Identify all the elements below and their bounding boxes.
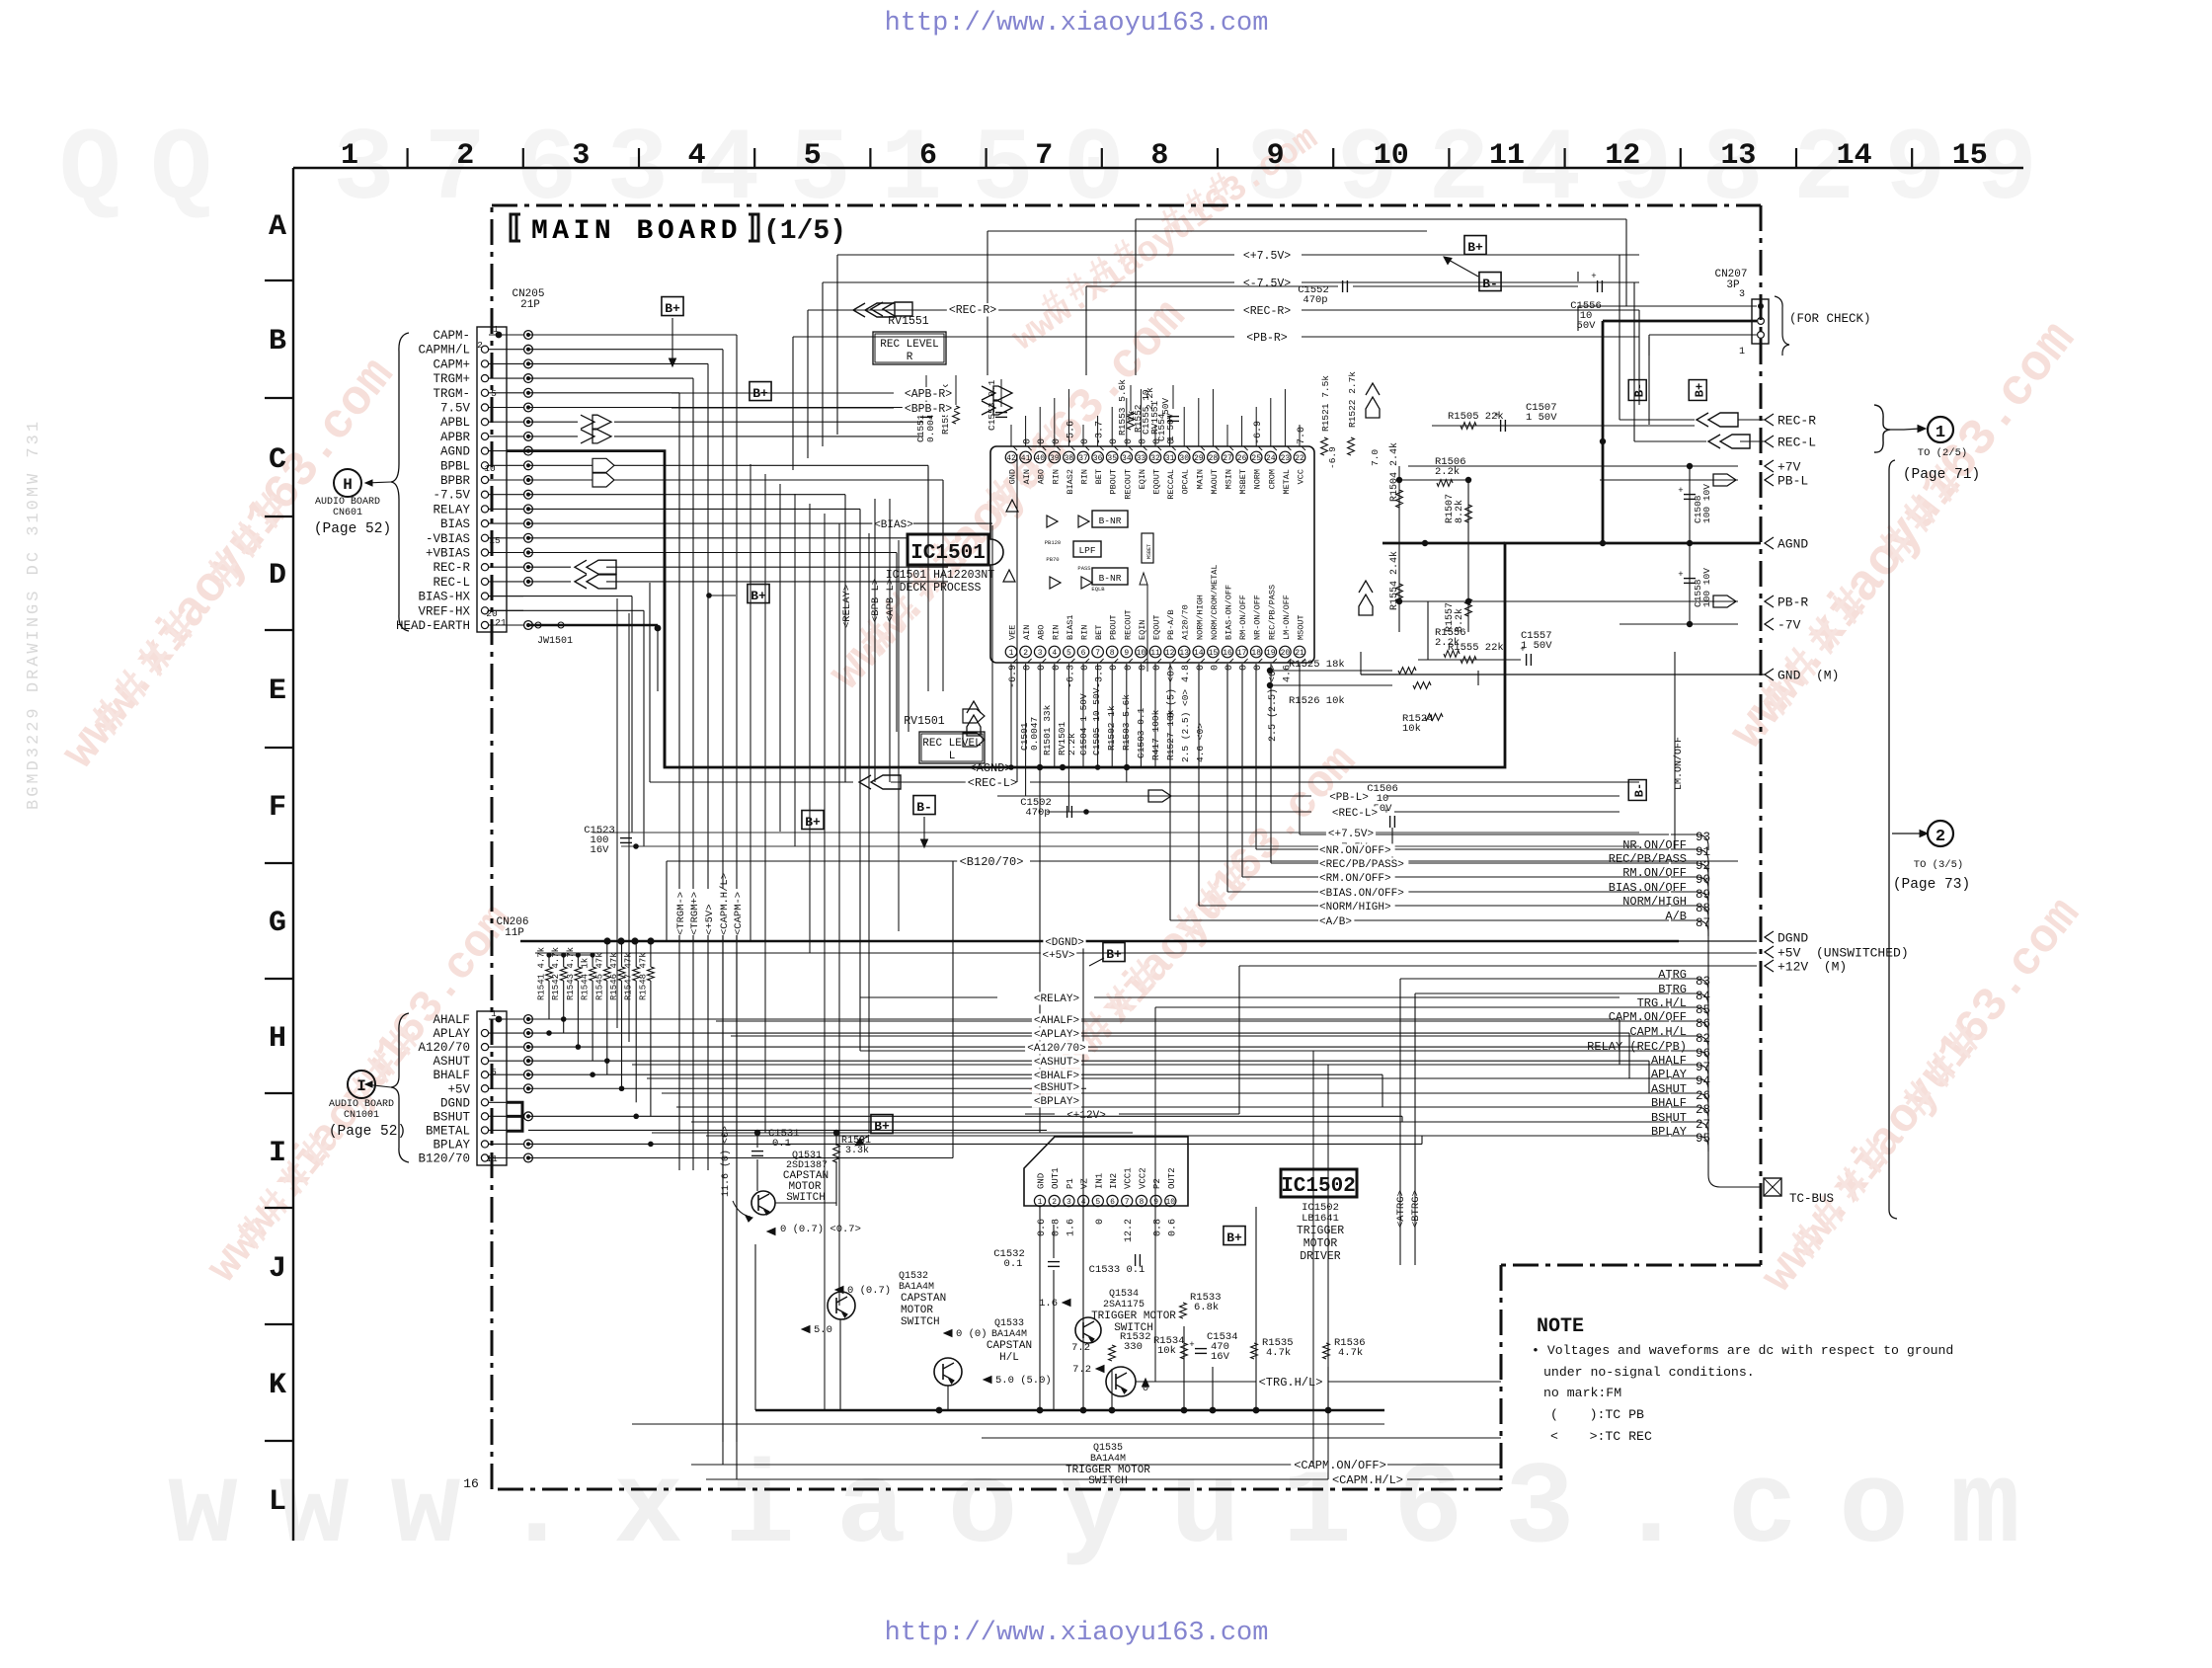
svg-text:16V: 16V xyxy=(1211,1351,1230,1363)
svg-text:AUDIO BOARD: AUDIO BOARD xyxy=(329,1099,394,1110)
svg-text:E: E xyxy=(269,675,286,708)
svg-text:RIN: RIN xyxy=(1080,469,1090,484)
svg-text:1 50V: 1 50V xyxy=(1165,413,1176,441)
svg-text:<BIAS.ON/OFF>: <BIAS.ON/OFF> xyxy=(1319,888,1404,900)
svg-text:PB-R: PB-R xyxy=(1777,596,1808,610)
svg-text:7.5V: 7.5V xyxy=(440,402,471,416)
svg-text:PB70: PB70 xyxy=(1046,556,1059,563)
svg-text:+12V (M): +12V (M) xyxy=(1777,960,1847,975)
svg-text:470p: 470p xyxy=(1025,807,1050,819)
svg-text:+7V: +7V xyxy=(1777,460,1801,475)
svg-text:6: 6 xyxy=(1081,649,1086,658)
svg-text:10: 10 xyxy=(1374,139,1409,173)
svg-text:<BPB-R>: <BPB-R> xyxy=(905,403,952,416)
svg-text:41: 41 xyxy=(1021,454,1031,463)
svg-text:36: 36 xyxy=(1093,454,1103,463)
svg-text:0: 0 xyxy=(1109,438,1120,444)
svg-text:BIAS-ON/OFF: BIAS-ON/OFF xyxy=(1224,585,1234,640)
svg-text:MSOUT: MSOUT xyxy=(1297,614,1306,640)
svg-text:50V: 50V xyxy=(1160,398,1171,415)
svg-text:6: 6 xyxy=(1110,1198,1115,1207)
svg-text:0 (0): 0 (0) xyxy=(956,1328,987,1340)
svg-text:<CAPM.H/L>: <CAPM.H/L> xyxy=(719,873,731,935)
svg-text:H/L: H/L xyxy=(999,1352,1019,1364)
svg-text:16: 16 xyxy=(1223,649,1232,658)
svg-text:12.2: 12.2 xyxy=(1124,1219,1135,1242)
svg-text:CAPSTAN: CAPSTAN xyxy=(901,1293,946,1305)
svg-text:7.0: 7.0 xyxy=(1297,427,1307,444)
svg-text:21P: 21P xyxy=(520,299,540,311)
svg-text:16V: 16V xyxy=(591,844,610,856)
svg-text:10: 10 xyxy=(484,463,496,474)
svg-text:0: 0 xyxy=(1095,1219,1106,1225)
svg-text:BSHUT: BSHUT xyxy=(1651,1111,1687,1125)
svg-text:LPF: LPF xyxy=(1078,545,1095,556)
svg-text:13: 13 xyxy=(1720,139,1756,173)
svg-text:REC-R: REC-R xyxy=(1777,414,1816,429)
svg-text:TRGM-: TRGM- xyxy=(433,387,470,401)
svg-text:DGND: DGND xyxy=(1777,931,1808,946)
svg-text:+: + xyxy=(1678,570,1683,580)
svg-text:GND: GND xyxy=(1037,1173,1047,1189)
svg-text:RELAY: RELAY xyxy=(433,503,470,516)
svg-text:CAPSTAN: CAPSTAN xyxy=(987,1340,1032,1352)
svg-text:VEE: VEE xyxy=(1008,625,1018,640)
svg-text:<REC-R>: <REC-R> xyxy=(949,304,996,317)
svg-text:TRGM+: TRGM+ xyxy=(433,372,470,386)
svg-text:NORM/HIGH: NORM/HIGH xyxy=(1622,895,1687,909)
svg-text:14: 14 xyxy=(1837,139,1872,173)
svg-text:RIN: RIN xyxy=(1080,625,1090,640)
svg-text:BIAS-HX: BIAS-HX xyxy=(418,591,470,604)
svg-text:TRIGGER MOTOR: TRIGGER MOTOR xyxy=(1091,1311,1176,1322)
svg-text:C: C xyxy=(269,443,286,477)
svg-text:0: 0 xyxy=(1037,665,1048,671)
svg-text:+VBIAS: +VBIAS xyxy=(426,547,470,561)
svg-text:B-: B- xyxy=(1633,783,1647,797)
svg-text:+: + xyxy=(1591,272,1596,281)
svg-text:<BIAS>: <BIAS> xyxy=(874,519,913,531)
svg-text:7: 7 xyxy=(1125,1198,1130,1207)
svg-text:0: 0 xyxy=(1124,665,1135,671)
svg-text:GND: GND xyxy=(1008,469,1018,484)
svg-text:40: 40 xyxy=(1035,454,1045,463)
svg-text:21: 21 xyxy=(1295,649,1304,658)
svg-text:<A/B>: <A/B> xyxy=(1319,916,1352,928)
svg-text:0: 0 xyxy=(1023,438,1034,444)
svg-text:9: 9 xyxy=(1153,1198,1158,1207)
svg-text:ASHUT: ASHUT xyxy=(433,1055,470,1069)
svg-text:(FOR CHECK): (FOR CHECK) xyxy=(1789,312,1871,326)
svg-text:24: 24 xyxy=(1266,454,1276,463)
svg-text:BHALF: BHALF xyxy=(1651,1096,1687,1110)
svg-text:42: 42 xyxy=(1006,454,1016,463)
svg-text:11: 11 xyxy=(1150,649,1160,658)
svg-text:<+7.5V>: <+7.5V> xyxy=(1243,250,1291,263)
svg-text:<BSHUT>: <BSHUT> xyxy=(1034,1082,1079,1094)
svg-text:0.8: 0.8 xyxy=(1052,1219,1063,1236)
svg-text:<APLAY>: <APLAY> xyxy=(1034,1029,1079,1041)
svg-text:Q1534: Q1534 xyxy=(1109,1289,1139,1300)
svg-text:21: 21 xyxy=(495,617,507,628)
svg-text:B-: B- xyxy=(1633,383,1647,397)
svg-text:METAL: METAL xyxy=(1282,469,1292,495)
svg-text:DECK PROCESS: DECK PROCESS xyxy=(900,582,982,595)
svg-text:0.0047: 0.0047 xyxy=(1029,717,1040,751)
svg-text:<CAPM.H/L>: <CAPM.H/L> xyxy=(1332,1473,1403,1487)
svg-text:0: 0 xyxy=(1023,665,1034,671)
svg-text:3: 3 xyxy=(572,139,590,173)
svg-text:B+: B+ xyxy=(805,815,821,830)
svg-text:Q1532: Q1532 xyxy=(899,1271,928,1282)
svg-text:IC1502: IC1502 xyxy=(1281,1175,1356,1198)
svg-text:4: 4 xyxy=(688,139,706,173)
svg-text:11P: 11P xyxy=(505,927,524,939)
svg-text:BET: BET xyxy=(1094,469,1104,484)
svg-text:BPBR: BPBR xyxy=(440,474,471,488)
svg-text:LB1641: LB1641 xyxy=(1302,1213,1339,1225)
svg-text:( ):TC PB: ( ):TC PB xyxy=(1550,1407,1644,1422)
svg-text:2.2k: 2.2k xyxy=(1435,466,1460,478)
svg-text:0.6: 0.6 xyxy=(1037,1219,1048,1236)
svg-text:APLAY: APLAY xyxy=(1651,1068,1687,1081)
svg-text:-7V: -7V xyxy=(1777,618,1801,633)
svg-text:31: 31 xyxy=(1165,454,1175,463)
svg-text:no mark:FM: no mark:FM xyxy=(1543,1386,1621,1400)
svg-text:<REC-L>: <REC-L> xyxy=(1332,808,1378,820)
svg-text:B+: B+ xyxy=(1106,947,1122,962)
svg-text:<AHALF>: <AHALF> xyxy=(1034,1015,1079,1027)
svg-text:0: 0 xyxy=(1080,438,1091,444)
svg-text:<APB-R>: <APB-R> xyxy=(905,388,952,401)
svg-text:C1553 0.1: C1553 0.1 xyxy=(987,379,997,431)
svg-text:0 (0.7): 0 (0.7) xyxy=(847,1285,891,1297)
svg-text:AIN: AIN xyxy=(1022,625,1032,640)
svg-text:NORM: NORM xyxy=(1253,469,1263,489)
svg-text:16: 16 xyxy=(463,1476,479,1491)
svg-text:0: 0 xyxy=(1037,438,1048,444)
svg-text:I: I xyxy=(269,1137,286,1170)
svg-text:R1545 47k: R1545 47k xyxy=(594,952,604,1000)
svg-text:38: 38 xyxy=(1065,454,1074,463)
svg-text:BTRG: BTRG xyxy=(1658,983,1687,996)
svg-text:7: 7 xyxy=(1035,139,1053,173)
svg-text:ABO: ABO xyxy=(1037,469,1047,484)
svg-text:1: 1 xyxy=(493,324,499,335)
svg-text:<+5V>: <+5V> xyxy=(704,904,716,935)
svg-text:APLAY: APLAY xyxy=(433,1027,470,1041)
svg-text:11: 11 xyxy=(486,1153,498,1164)
svg-text:7.2: 7.2 xyxy=(1072,1364,1091,1376)
svg-text:<REC-R>: <REC-R> xyxy=(1243,305,1291,318)
svg-text:1.6: 1.6 xyxy=(1039,1298,1058,1310)
svg-text:34: 34 xyxy=(1122,454,1132,463)
svg-text:(Page 71): (Page 71) xyxy=(1903,467,1980,483)
svg-text:D: D xyxy=(269,559,286,593)
svg-text:BPLAY: BPLAY xyxy=(1651,1125,1687,1139)
svg-text:P2: P2 xyxy=(1152,1178,1162,1189)
svg-text:4.6 <0>: 4.6 <0> xyxy=(1195,723,1206,762)
svg-text:TC-BUS: TC-BUS xyxy=(1789,1192,1834,1206)
svg-text:BET: BET xyxy=(1094,625,1104,640)
svg-text:PBOUT: PBOUT xyxy=(1109,469,1119,495)
svg-text:0: 0 xyxy=(1210,665,1221,671)
svg-text:VCC1: VCC1 xyxy=(1124,1167,1134,1189)
svg-text:JW1501: JW1501 xyxy=(537,636,573,647)
svg-text:18: 18 xyxy=(1251,649,1261,658)
svg-text:22: 22 xyxy=(1295,454,1304,463)
svg-text:LM-ON/OFF: LM-ON/OFF xyxy=(1282,595,1292,640)
svg-text:NORM/CROM/METAL: NORM/CROM/METAL xyxy=(1210,564,1220,640)
svg-text:3P: 3P xyxy=(1726,279,1740,291)
svg-text:B-: B- xyxy=(916,800,932,815)
svg-text:7.0: 7.0 xyxy=(1370,449,1381,466)
svg-text:B-NR: B-NR xyxy=(1099,516,1122,526)
svg-text:BIAS1: BIAS1 xyxy=(1066,614,1075,640)
svg-text:28: 28 xyxy=(1209,454,1219,463)
svg-text:6.8k: 6.8k xyxy=(1194,1302,1219,1313)
svg-text:12: 12 xyxy=(1165,649,1175,658)
svg-text:B+: B+ xyxy=(665,301,680,316)
svg-text:15: 15 xyxy=(1952,139,1988,173)
svg-text:OPCAL: OPCAL xyxy=(1181,469,1191,495)
svg-text:I: I xyxy=(356,1077,366,1095)
svg-text:R: R xyxy=(907,352,913,363)
svg-text:-6.3: -6.3 xyxy=(1066,665,1076,688)
svg-text:TO (3/5): TO (3/5) xyxy=(1914,859,1963,871)
svg-text:BHALF: BHALF xyxy=(433,1069,470,1082)
svg-text:BGMD3229 DRAWINGS DC 310MW 731: BGMD3229 DRAWINGS DC 310MW 731 xyxy=(25,419,43,810)
svg-text:R1501 33k: R1501 33k xyxy=(1042,704,1053,755)
svg-text:17: 17 xyxy=(1237,649,1247,658)
svg-text:APBR: APBR xyxy=(440,431,471,444)
svg-text:Q1533: Q1533 xyxy=(994,1318,1024,1329)
svg-text:L: L xyxy=(269,1485,286,1519)
svg-text:MOTOR: MOTOR xyxy=(1303,1237,1338,1250)
svg-text:<TRGM->: <TRGM-> xyxy=(675,892,687,935)
svg-text:+: + xyxy=(1189,1340,1194,1350)
svg-text:TO (2/5): TO (2/5) xyxy=(1918,447,1967,459)
svg-text:330: 330 xyxy=(1124,1341,1143,1353)
svg-text:<ASHUT>: <ASHUT> xyxy=(1034,1057,1079,1069)
svg-text:TRG.H/L: TRG.H/L xyxy=(1637,996,1687,1010)
svg-text:REC-L: REC-L xyxy=(433,576,470,590)
svg-text:CROM: CROM xyxy=(1267,469,1277,489)
svg-text:0.1: 0.1 xyxy=(1004,1258,1023,1270)
svg-text:4.7k: 4.7k xyxy=(1266,1347,1291,1359)
svg-text:PB-A/B: PB-A/B xyxy=(1166,609,1176,640)
svg-text:0: 0 xyxy=(1138,438,1148,444)
svg-text:VCC: VCC xyxy=(1297,469,1306,484)
svg-text:RM-ON/OFF: RM-ON/OFF xyxy=(1238,595,1248,640)
svg-text:R1553 5.6k: R1553 5.6k xyxy=(1117,379,1128,436)
svg-text:11.6 (0) <0>: 11.6 (0) <0> xyxy=(720,1126,732,1197)
svg-text:(1/5): (1/5) xyxy=(763,216,846,247)
svg-text:5: 5 xyxy=(1066,649,1071,658)
svg-text:26: 26 xyxy=(1237,454,1247,463)
svg-text:B-: B- xyxy=(1482,277,1498,291)
svg-text:8: 8 xyxy=(1110,649,1115,658)
svg-text:PBOUT: PBOUT xyxy=(1109,614,1119,640)
svg-text:IC1501: IC1501 xyxy=(910,542,986,565)
svg-text:B+: B+ xyxy=(1467,240,1483,255)
svg-text:REC/PB/PASS: REC/PB/PASS xyxy=(1609,852,1687,866)
svg-text:5: 5 xyxy=(804,139,822,173)
svg-text:2.5 (2.5) <0>: 2.5 (2.5) <0> xyxy=(1180,689,1191,762)
svg-text:R1544 1k: R1544 1k xyxy=(581,958,591,1000)
svg-text:AHALF: AHALF xyxy=(433,1013,470,1027)
svg-text:<RELAY>: <RELAY> xyxy=(841,585,853,628)
svg-text:14: 14 xyxy=(1194,649,1204,658)
svg-text:0 (0.7) <0.7>: 0 (0.7) <0.7> xyxy=(780,1224,861,1235)
svg-text:2: 2 xyxy=(456,139,474,173)
svg-text:CAPMH/L: CAPMH/L xyxy=(418,344,470,357)
svg-text:CAPM.ON/OFF: CAPM.ON/OFF xyxy=(1609,1010,1687,1024)
svg-text:B: B xyxy=(269,325,286,358)
svg-text:2.2k: 2.2k xyxy=(1145,387,1155,410)
svg-text:9: 9 xyxy=(1124,649,1129,658)
svg-text:RECOUT: RECOUT xyxy=(1123,469,1133,500)
svg-text:<BTRG>: <BTRG> xyxy=(1410,1190,1422,1228)
svg-text:23: 23 xyxy=(1281,454,1291,463)
svg-text:<PB-L>: <PB-L> xyxy=(1329,792,1369,804)
svg-text:2.2k: 2.2k xyxy=(1066,733,1077,755)
svg-text:<TRGM+>: <TRGM+> xyxy=(689,892,701,935)
svg-text:R417 100k: R417 100k xyxy=(1150,709,1161,760)
svg-text:<REC/PB/PASS>: <REC/PB/PASS> xyxy=(1319,859,1404,871)
svg-text:-6.9: -6.9 xyxy=(1327,446,1338,469)
svg-text:BSHUT: BSHUT xyxy=(433,1110,470,1124)
svg-text:0: 0 xyxy=(1196,665,1207,671)
svg-text:MOTOR: MOTOR xyxy=(901,1305,933,1316)
svg-text:C1503 0.1: C1503 0.1 xyxy=(1136,707,1146,758)
svg-text:<NORM/HIGH>: <NORM/HIGH> xyxy=(1319,902,1391,913)
svg-text:C1504 1 50V: C1504 1 50V xyxy=(1078,693,1089,755)
svg-text:0.6: 0.6 xyxy=(1167,1219,1178,1236)
svg-text:35: 35 xyxy=(1107,454,1117,463)
svg-text:4.7k: 4.7k xyxy=(1338,1347,1363,1359)
svg-text:A120/70: A120/70 xyxy=(1181,604,1191,640)
svg-text:http://www.xiaoyu163.com: http://www.xiaoyu163.com xyxy=(885,1619,1269,1648)
svg-text:AIN: AIN xyxy=(1022,469,1032,484)
svg-text:REC-R: REC-R xyxy=(433,561,470,575)
svg-text:3: 3 xyxy=(1739,289,1745,300)
svg-text:32: 32 xyxy=(1150,454,1160,463)
svg-text:BIAS.ON/OFF: BIAS.ON/OFF xyxy=(1609,881,1687,895)
svg-text:7.2: 7.2 xyxy=(1071,1342,1090,1354)
svg-text:27: 27 xyxy=(1223,454,1232,463)
svg-text:39: 39 xyxy=(1050,454,1060,463)
svg-text:1: 1 xyxy=(491,1008,497,1019)
svg-text:-6.9: -6.9 xyxy=(1253,421,1264,444)
svg-text:3.3k: 3.3k xyxy=(845,1145,869,1156)
svg-text:2: 2 xyxy=(1935,828,1945,846)
svg-text:10k: 10k xyxy=(1402,723,1421,735)
svg-text:<+5V>: <+5V> xyxy=(1042,950,1074,962)
svg-text:R1555 22k: R1555 22k xyxy=(1448,642,1504,654)
svg-text:5: 5 xyxy=(1095,1198,1100,1207)
svg-text:33: 33 xyxy=(1137,454,1146,463)
svg-text:8: 8 xyxy=(1150,139,1168,173)
svg-text:K: K xyxy=(269,1369,286,1402)
svg-text:A120/70: A120/70 xyxy=(418,1041,470,1055)
svg-text:R1526 10k: R1526 10k xyxy=(1289,695,1345,707)
svg-text:<B120/70>: <B120/70> xyxy=(960,855,1024,869)
svg-text:1: 1 xyxy=(1935,424,1945,442)
svg-text:10: 10 xyxy=(1137,649,1146,658)
svg-text:AHALF: AHALF xyxy=(1651,1054,1687,1068)
svg-text:R1525 18k: R1525 18k xyxy=(1289,659,1345,671)
svg-text:MAIN: MAIN xyxy=(1195,469,1205,489)
svg-text:REC LEVEL: REC LEVEL xyxy=(922,738,981,750)
svg-text:GND (M): GND (M) xyxy=(1777,669,1839,683)
svg-text:R1541 4.7k: R1541 4.7k xyxy=(537,947,547,1000)
svg-text:100 10V: 100 10V xyxy=(1701,484,1712,523)
svg-text:30: 30 xyxy=(1179,454,1189,463)
svg-text:8.2k: 8.2k xyxy=(1454,500,1465,523)
svg-text:<AGND>: <AGND> xyxy=(969,761,1011,775)
svg-text:F: F xyxy=(269,791,286,825)
svg-text:ATRG: ATRG xyxy=(1658,968,1687,982)
svg-text:RECOUT: RECOUT xyxy=(1123,609,1133,640)
svg-text:BPLAY: BPLAY xyxy=(433,1138,470,1152)
svg-text:-3.7: -3.7 xyxy=(1095,421,1106,444)
svg-text:SWITCH: SWITCH xyxy=(786,1192,826,1204)
svg-text:AGND: AGND xyxy=(440,445,470,459)
svg-text:CN601: CN601 xyxy=(333,508,362,518)
svg-text:NR-ON/OFF: NR-ON/OFF xyxy=(1253,595,1263,640)
svg-text:<BPLAY>: <BPLAY> xyxy=(1034,1096,1079,1108)
svg-text:13: 13 xyxy=(1179,649,1189,658)
svg-text:B-NR: B-NR xyxy=(1099,573,1122,584)
svg-text:15: 15 xyxy=(489,535,501,546)
svg-text:QQ 376345150 892498299: QQ 376345150 892498299 xyxy=(59,113,2067,229)
svg-text:<RELAY>: <RELAY> xyxy=(1034,993,1079,1005)
svg-text:0: 0 xyxy=(1224,665,1235,671)
svg-text:9: 9 xyxy=(1267,139,1285,173)
svg-text:0.1: 0.1 xyxy=(772,1138,791,1150)
svg-text:C1505 10 50V: C1505 10 50V xyxy=(1091,687,1102,755)
svg-text:AGND: AGND xyxy=(1777,537,1808,552)
svg-text:BA1A4M: BA1A4M xyxy=(899,1282,934,1293)
svg-text:2: 2 xyxy=(477,340,483,351)
svg-text:11: 11 xyxy=(1489,139,1525,173)
svg-text:<REC-L>: <REC-L> xyxy=(968,776,1017,790)
svg-text:APBL: APBL xyxy=(440,416,470,430)
svg-text:NOTE: NOTE xyxy=(1537,1315,1584,1338)
svg-text:-7.5V: -7.5V xyxy=(433,489,470,503)
svg-text:P1: P1 xyxy=(1066,1178,1075,1189)
svg-text:1 50V: 1 50V xyxy=(1526,412,1557,424)
svg-text:REC/PB/PASS: REC/PB/PASS xyxy=(1267,585,1277,640)
svg-text:(Page 73): (Page 73) xyxy=(1893,877,1970,893)
svg-text:AUDIO BOARD: AUDIO BOARD xyxy=(315,497,380,508)
svg-text:A/B: A/B xyxy=(1665,910,1687,923)
svg-text:CAPM-: CAPM- xyxy=(433,329,470,343)
svg-text:EQOUT: EQOUT xyxy=(1152,469,1162,495)
svg-text:G: G xyxy=(269,907,286,940)
svg-text:R1527 10k: R1527 10k xyxy=(1165,709,1176,760)
svg-text:B+: B+ xyxy=(750,589,766,603)
svg-text:2: 2 xyxy=(1023,649,1028,658)
svg-text:BIAS2: BIAS2 xyxy=(1066,469,1075,495)
svg-text:DGND: DGND xyxy=(440,1096,470,1110)
svg-text:TRIGGER: TRIGGER xyxy=(1297,1225,1344,1237)
svg-text:15: 15 xyxy=(1209,649,1219,658)
svg-text:J: J xyxy=(269,1252,286,1286)
svg-text:<DGND>: <DGND> xyxy=(1045,937,1084,949)
svg-text:EQIN: EQIN xyxy=(1138,620,1147,640)
